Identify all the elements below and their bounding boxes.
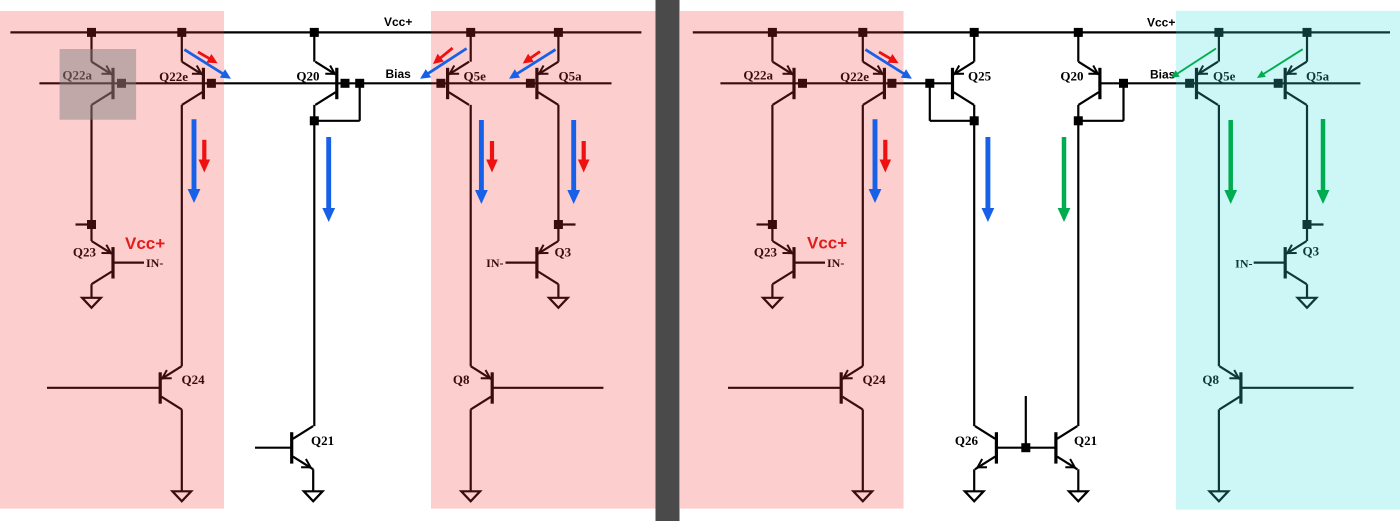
svg-text:Q26: Q26 bbox=[955, 433, 979, 448]
svg-text:Vcc+: Vcc+ bbox=[1147, 16, 1175, 30]
svg-text:Bias: Bias bbox=[1150, 68, 1176, 82]
svg-text:Q21: Q21 bbox=[1074, 433, 1097, 448]
svg-text:Q21: Q21 bbox=[311, 433, 334, 448]
svg-text:Q20: Q20 bbox=[296, 69, 319, 84]
svg-text:Q20: Q20 bbox=[1060, 69, 1083, 84]
svg-text:Bias: Bias bbox=[386, 67, 412, 81]
svg-text:Vcc+: Vcc+ bbox=[807, 234, 847, 253]
svg-text:Vcc+: Vcc+ bbox=[125, 234, 165, 253]
svg-text:Q25: Q25 bbox=[968, 69, 992, 84]
svg-text:Vcc+: Vcc+ bbox=[384, 15, 412, 29]
